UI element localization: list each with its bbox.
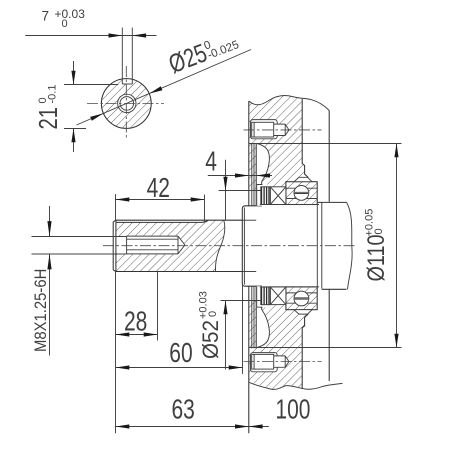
keyway slot left line xyxy=(121,28,123,85)
diameter 25 leader upper arrow xyxy=(149,86,162,93)
crankcase hatch lower bearing boss xyxy=(256,303,308,347)
bolt lower washer face xyxy=(253,354,255,369)
bolt boss inner edge lower xyxy=(301,348,303,389)
bearing lower inner race line xyxy=(286,292,317,294)
spigot shelf line upper (doubles as diameter 110 top extension) xyxy=(249,143,402,145)
svg-text:7: 7 xyxy=(42,9,50,24)
collar chamfer line xyxy=(243,208,245,285)
dimension 42 right arrow xyxy=(191,197,205,201)
bearing lower block hatch xyxy=(286,287,317,310)
drill point lower line xyxy=(178,245,185,254)
dimension 21 text xyxy=(34,85,63,130)
thread M8 dimension line upper xyxy=(49,206,51,237)
spigot shelf line lower (doubles as diameter 110 bottom extension) xyxy=(249,347,402,349)
crankcase hatch upper spigot strip xyxy=(249,143,256,190)
oil seal lower xyxy=(261,287,271,305)
bearing upper ball equator lines xyxy=(295,192,309,193)
dimension 7 line xyxy=(25,35,156,37)
thread M8 text xyxy=(32,269,50,352)
bearing upper dome cap xyxy=(294,177,312,181)
thread M8 upper arrow xyxy=(47,221,51,236)
dimension left extension line (shaft end lower) xyxy=(115,272,117,434)
bearing upper block hatch xyxy=(286,182,317,205)
thread M8 top extension line xyxy=(32,236,127,238)
tapped hole thread circle xyxy=(118,94,136,112)
seal step edge upper xyxy=(257,185,263,206)
shaft end chamfer corner bottom xyxy=(113,270,116,272)
crankcase outer face lower with extension xyxy=(248,286,250,433)
keyway bottom line with runout xyxy=(116,220,208,222)
bolt upper point xyxy=(285,124,289,135)
tapped hole thread end line xyxy=(177,236,179,254)
diameter 52 top extension line xyxy=(219,190,261,192)
svg-text:21: 21 xyxy=(34,107,63,130)
diameter 25 text xyxy=(165,26,242,79)
diameter 52 dimension line lower xyxy=(225,301,227,370)
dimension 60 left arrow xyxy=(116,365,130,369)
bearing upper outer race line xyxy=(286,187,317,189)
shaft end chamfer corner top xyxy=(113,220,116,222)
dimension 21 bottom arrow xyxy=(71,129,75,143)
svg-text:M8X1.25-6H: M8X1.25-6H xyxy=(32,269,50,352)
diameter 110 text xyxy=(363,209,390,282)
shaft end chamfer line xyxy=(115,220,117,271)
dimension 60 right arrow xyxy=(229,365,243,369)
diameter 25 leader line xyxy=(77,50,252,126)
dimension 28 left arrow xyxy=(116,332,130,336)
tapped hole bottom major line xyxy=(127,253,178,255)
seal step plate upper (white) xyxy=(256,185,270,206)
bearing upper inner race line xyxy=(286,198,317,200)
bearing upper: outer white block xyxy=(286,182,317,205)
bolt upper shank lines xyxy=(274,124,286,135)
dimension 100 arrow xyxy=(249,424,263,428)
bearing upper block outline xyxy=(286,182,317,205)
dimension 42 line xyxy=(116,199,205,201)
bearing seat line lower xyxy=(260,286,319,288)
bolt lower shank lines xyxy=(274,356,286,367)
svg-text:Ø52: Ø52 xyxy=(198,320,223,359)
bearing boss inner profile upper xyxy=(302,143,308,181)
tapped hole top minor line xyxy=(127,238,178,240)
svg-text:42: 42 xyxy=(147,173,170,204)
bearing lower dome cap xyxy=(294,310,312,314)
seal pocket upper (white) xyxy=(256,144,269,185)
keyway slot right line xyxy=(131,28,133,85)
shaft outline top (OD line) xyxy=(116,219,256,221)
drill point upper line xyxy=(178,236,185,245)
crankcase hatch lower spigot strip xyxy=(249,301,256,348)
bearing lower ball equator lines xyxy=(295,298,309,299)
seal pocket lower (white) xyxy=(256,307,269,347)
dimension 63 line xyxy=(116,426,249,428)
shaft break wavy line xyxy=(215,220,224,271)
bearing lower retainer box xyxy=(270,287,286,305)
dimension 42 extension line right xyxy=(204,195,206,222)
bearing lower block outline xyxy=(286,287,317,310)
crankcase bottom break line xyxy=(249,382,343,389)
shaft outline bottom xyxy=(116,271,256,273)
crankcase top break line xyxy=(249,95,329,110)
dimension 100 line stub xyxy=(249,426,269,428)
keyway slot (end view, white) xyxy=(122,78,132,84)
diameter 52 text xyxy=(198,291,223,359)
crankshaft inner bottom edge xyxy=(322,288,347,290)
crank web right edge xyxy=(321,202,323,288)
dimension 28 line xyxy=(116,334,158,336)
crankcase face chamfer line 1 lower xyxy=(251,286,253,348)
dimension 4 left arrow xyxy=(235,173,249,177)
crankcase face chamfer line 2 upper xyxy=(253,143,255,206)
end view horizontal centerline xyxy=(87,103,164,105)
collar shoulder hidden edge upper xyxy=(242,219,256,221)
bearing seat line upper xyxy=(260,204,319,206)
svg-text:+0.03: +0.03 xyxy=(55,7,86,21)
seal step plate lower (white) xyxy=(256,286,270,307)
dimension 7 left arrow xyxy=(109,33,123,37)
bearing boss inner profile lower xyxy=(302,310,308,348)
svg-text:63: 63 xyxy=(172,395,195,426)
dimension 28 extension line right xyxy=(157,272,159,341)
bearing lower outer race line xyxy=(286,302,317,304)
tapped hole bottom minor line xyxy=(127,249,178,251)
crankcase outer face upper xyxy=(248,101,250,206)
bearing upper ball xyxy=(294,186,309,201)
tapped hole minor circle xyxy=(120,97,134,111)
diameter 52 lower arrow xyxy=(223,301,227,315)
svg-text:60: 60 xyxy=(169,338,192,369)
crankshaft inner break line xyxy=(347,202,353,289)
bolt lower point xyxy=(285,356,289,367)
crank web left edge xyxy=(316,205,318,287)
shaft end view: hatched section ring xyxy=(101,79,151,129)
shaft end face line xyxy=(112,222,114,270)
dimension 60 extension line right xyxy=(242,285,244,374)
shaft end view outer circle xyxy=(101,79,151,129)
dimension 42 extension line left (shaft end) xyxy=(115,194,117,220)
keyway bottom line xyxy=(122,83,132,85)
svg-text:4: 4 xyxy=(205,147,217,178)
crankcase hatch lower bolt boss xyxy=(249,348,302,390)
shaft section hatch xyxy=(116,220,225,271)
tapped hole M8 (white cavity) xyxy=(113,236,185,254)
crankcase inner wall upper xyxy=(328,111,330,202)
dimension 21 line upper xyxy=(73,61,75,85)
svg-text:0: 0 xyxy=(373,228,385,234)
dimension 28 right arrow xyxy=(144,332,158,336)
oil seal upper lips xyxy=(262,187,270,205)
dimension 21 top extension line xyxy=(64,84,118,86)
diameter 25 leader lower arrow xyxy=(90,113,103,120)
diameter 52 bottom extension line xyxy=(221,300,261,302)
bearing lower ball xyxy=(294,291,309,306)
diameter 110 dimension line xyxy=(396,144,398,348)
dimension 21 top arrow xyxy=(71,71,75,85)
bolt lower centerline xyxy=(244,361,322,363)
dimension 7 right arrow xyxy=(132,33,146,37)
dimension 63 right arrow xyxy=(235,424,249,428)
seal step edge lower xyxy=(257,286,263,307)
oil seal lower lips xyxy=(262,287,270,305)
dimension 21 line lower xyxy=(73,129,75,153)
crankcase face chamfer line 1 upper xyxy=(251,143,253,206)
bolt upper washer face xyxy=(253,122,255,137)
svg-text:100: 100 xyxy=(275,395,310,426)
dimension 60 line xyxy=(116,367,243,369)
bearing upper retainer X xyxy=(270,187,286,205)
diameter 52 dimension line upper xyxy=(225,160,227,220)
dimension 63 left arrow xyxy=(116,424,130,428)
bolt upper head xyxy=(252,122,274,137)
bearing upper retainer box xyxy=(270,187,286,205)
end view vertical centerline xyxy=(125,66,127,140)
main shaft centerline xyxy=(103,245,357,247)
collar shoulder hidden edge lower xyxy=(242,271,256,273)
crankcase face chamfer line 2 lower xyxy=(253,286,255,348)
tapped hole entry line xyxy=(126,236,128,254)
svg-text:28: 28 xyxy=(124,307,147,338)
dimension 21 bottom extension line xyxy=(64,128,86,130)
tapped hole top major line xyxy=(127,235,178,237)
svg-text:0: 0 xyxy=(207,311,219,317)
crankshaft collar boss (white) xyxy=(242,206,260,286)
diameter 110 top arrow xyxy=(394,144,398,158)
bolt lower shank (white) xyxy=(274,356,289,367)
diameter 52 upper arrow xyxy=(223,177,227,191)
seal pocket upper profile curve xyxy=(257,144,269,185)
svg-text:0: 0 xyxy=(62,18,68,30)
bolt lower head xyxy=(252,354,274,369)
crankshaft inner top edge xyxy=(317,201,346,203)
thread M8 bottom extension line xyxy=(32,253,127,255)
crankcase hatch upper bearing boss xyxy=(256,143,308,188)
crankcase inner wall lower xyxy=(328,290,330,382)
dimension 4 line xyxy=(208,175,272,177)
bolt lower counterbore (white) xyxy=(251,353,278,372)
thread M8 lower dimension line xyxy=(49,254,51,356)
crankcase hatch upper bolt boss xyxy=(249,95,302,143)
spigot recess face lower xyxy=(255,286,257,348)
diameter 110 bottom arrow xyxy=(394,334,398,348)
svg-text:Ø110: Ø110 xyxy=(363,235,390,282)
bolt upper centerline xyxy=(244,129,322,131)
bearing lower: outer white block xyxy=(286,287,317,310)
spigot recess face upper xyxy=(255,143,257,206)
bolt upper shank (white) xyxy=(274,124,289,135)
oil seal upper xyxy=(261,187,271,205)
bolt boss inner edge upper xyxy=(301,99,303,143)
seal pocket lower profile curve xyxy=(257,307,269,347)
svg-text:-0.1: -0.1 xyxy=(47,85,59,104)
dimension 42 left arrow xyxy=(116,197,130,201)
bearing lower retainer X xyxy=(270,287,286,305)
dimension 4 right arrow xyxy=(256,173,270,177)
bolt upper counterbore (white) xyxy=(251,120,278,139)
thread M8 lower arrow xyxy=(47,254,51,269)
